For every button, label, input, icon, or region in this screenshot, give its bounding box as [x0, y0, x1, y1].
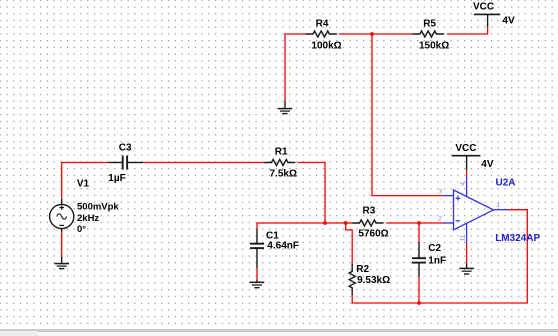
svg-text:7.5kΩ: 7.5kΩ	[270, 169, 297, 180]
ground 1 (below R4)	[278, 101, 293, 114]
wire C2 top	[418, 223, 420, 242]
svg-text:2: 2	[437, 216, 442, 223]
node J2 (R1/mid wire junction)	[323, 221, 327, 225]
wire VCC1 stem to R5	[447, 27, 488, 34]
svg-text:LM324AP: LM324AP	[495, 233, 540, 244]
svg-text:1nF: 1nF	[428, 256, 446, 267]
svg-text:150kΩ: 150kΩ	[419, 40, 449, 51]
resistor R1	[264, 146, 297, 179]
op-amp pin 2 (- input)	[443, 222, 453, 224]
svg-text:C3: C3	[119, 142, 132, 153]
svg-text:R5: R5	[423, 19, 436, 30]
power symbol VCC (op-amp supply)	[452, 143, 494, 170]
svg-text:VCC: VCC	[455, 143, 476, 154]
wire V1 top to C3	[62, 163, 109, 200]
resistor R4	[306, 19, 342, 52]
wire C2 bottom	[418, 277, 420, 303]
wire J4 to op-amp - input	[419, 222, 444, 224]
resistor R5	[413, 19, 450, 52]
power symbol VCC (top right)	[473, 1, 515, 27]
svg-text:100kΩ: 100kΩ	[311, 40, 341, 51]
op-amp pin 1 (output)	[494, 209, 509, 211]
svg-text:R3: R3	[363, 206, 376, 217]
capacitor C2	[412, 242, 446, 277]
node J3 (R2 tap junction)	[344, 221, 348, 225]
node J4 (C2 top junction)	[417, 221, 421, 225]
svg-text:VCC: VCC	[473, 1, 494, 12]
wire J2 to J3	[325, 222, 346, 224]
svg-text:4V: 4V	[502, 16, 515, 27]
op-amp pin 4 (V+)	[466, 177, 468, 197]
ground 4 (below op-amp)	[459, 263, 474, 274]
wire R4 to ground 1	[285, 34, 306, 101]
svg-text:4.64nF: 4.64nF	[267, 240, 299, 251]
svg-text:R1: R1	[275, 146, 288, 157]
wire C1 to ground 2	[256, 268, 258, 280]
svg-text:0°: 0°	[77, 224, 86, 235]
svg-text:R2: R2	[356, 264, 369, 275]
svg-text:2kHz: 2kHz	[77, 213, 99, 224]
wire R2 to bottom rail	[352, 295, 419, 303]
op-amp U2A	[454, 178, 541, 244]
capacitor C3	[108, 142, 143, 184]
wire C1 corner to J2	[257, 223, 325, 230]
svg-text:3: 3	[438, 188, 442, 195]
resistor R2	[349, 264, 390, 295]
voltage source V1	[50, 179, 120, 235]
svg-text:U2A: U2A	[496, 178, 516, 189]
svg-text:9.53kΩ: 9.53kΩ	[357, 275, 390, 286]
wire J1 to R4	[339, 33, 372, 35]
capacitor C1	[250, 229, 299, 268]
ground 2 (below C1)	[250, 280, 265, 288]
wire R1 down to node J2	[298, 163, 325, 224]
wire bottom rail to op-amp output	[419, 210, 527, 303]
svg-text:1µF: 1µF	[108, 173, 125, 184]
wire C3 to R1	[143, 162, 264, 164]
wire J1 down to op-amp + input	[372, 34, 444, 196]
svg-text:11: 11	[459, 234, 466, 241]
wire R5 to node J1	[372, 33, 413, 35]
svg-text:C2: C2	[428, 243, 441, 254]
wire R3 to node J4	[386, 222, 419, 224]
svg-text:5760Ω: 5760Ω	[358, 229, 388, 240]
svg-text:1: 1	[497, 202, 501, 209]
wire VCC2 to op-amp pin 4	[466, 170, 468, 177]
resistor R3	[352, 206, 389, 240]
op-amp pin 3 (+ input)	[443, 195, 453, 197]
bottom scrollbar chrome	[0, 329, 558, 336]
svg-text:4V: 4V	[481, 159, 494, 170]
ground 3 (below V1)	[54, 257, 69, 269]
wire pin 11 to ground 4	[466, 243, 468, 264]
node J1 (junction R4/R5)	[370, 32, 374, 36]
wire J3 to R3	[346, 222, 352, 224]
wire J3 jog down to R2	[346, 223, 353, 264]
op-amp pin 11 (V-)	[466, 223, 468, 244]
svg-text:R4: R4	[316, 19, 329, 30]
node J5 (C2 bottom junction)	[417, 301, 421, 305]
svg-text:4: 4	[460, 182, 467, 186]
svg-text:500mVpk: 500mVpk	[77, 201, 119, 212]
svg-text:V1: V1	[77, 179, 90, 190]
wire V1 bottom to ground 3	[61, 231, 63, 257]
